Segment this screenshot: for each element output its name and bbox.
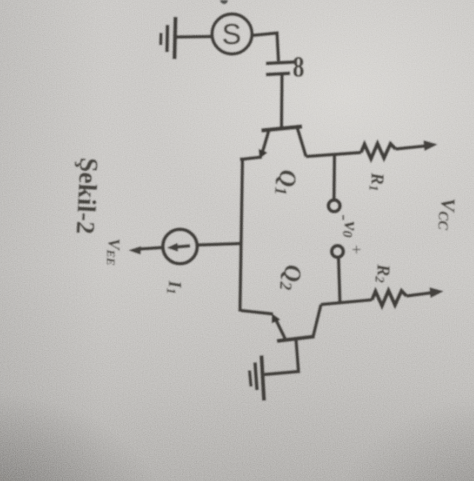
wire Q2 emitter to common rail bbox=[241, 311, 273, 315]
wire Q1 emitter to common rail bbox=[240, 157, 262, 160]
ground (bottom, at Q2 base) bbox=[250, 356, 265, 401]
wire capacitor to Q1 base bbox=[280, 75, 284, 127]
node v0 minus terminal bbox=[328, 200, 340, 212]
wire S to capacitor bbox=[252, 33, 279, 61]
source S bbox=[212, 14, 252, 54]
wire common emitter rail bbox=[240, 158, 243, 312]
wire plus terminal down to Q2 collector wire bbox=[339, 258, 341, 305]
wire junction to output terminal (minus) bbox=[332, 154, 336, 200]
transistor Q1 bbox=[259, 127, 306, 159]
capacitor C (coupling, value infinity) bbox=[266, 62, 296, 75]
wire Q2 base down and left to ground bbox=[265, 340, 299, 375]
resistor R1 bbox=[361, 144, 396, 159]
ground (top, at source S) bbox=[161, 17, 176, 59]
wire R1 to VCC arrow bbox=[396, 146, 428, 149]
wire rail to current source I1 bbox=[198, 244, 242, 246]
resistor R2 bbox=[372, 291, 407, 306]
wire Q1 collector bbox=[306, 153, 361, 157]
wire ground to S bbox=[176, 35, 213, 39]
transistor Q2 bbox=[272, 305, 321, 342]
wire I1 to VEE arrow bbox=[137, 248, 163, 250]
node v0 plus terminal bbox=[332, 246, 344, 258]
current source I1 bbox=[163, 229, 197, 263]
label - v0 + (rotated) bbox=[334, 214, 367, 254]
label vs (cropped at top edge) bbox=[220, 0, 228, 4]
wire R2 to VCC arrow bbox=[407, 293, 434, 296]
wire Q2 collector bbox=[321, 300, 372, 305]
